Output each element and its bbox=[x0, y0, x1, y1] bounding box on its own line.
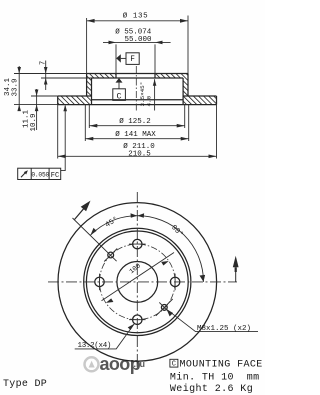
svg-text:Ø 141 MAX: Ø 141 MAX bbox=[115, 130, 156, 139]
svg-text:7: 7 bbox=[40, 61, 48, 65]
dim text 34.1 33.9 bbox=[4, 77, 19, 96]
ext ring top left bbox=[31, 95, 58, 97]
arrow dia211 left bbox=[58, 155, 66, 159]
svg-text:13.2(x4): 13.2(x4) bbox=[78, 342, 112, 350]
arrow 11.1 top bbox=[35, 90, 39, 97]
wall inner edge right bbox=[182, 78, 184, 105]
svg-text:0.050: 0.050 bbox=[31, 172, 49, 179]
dim line 7 bbox=[45, 61, 47, 91]
tick bolt hole E bbox=[174, 274, 176, 291]
svg-text:100: 100 bbox=[128, 262, 143, 276]
ring top right bbox=[183, 95, 216, 97]
tick M8 UL diag1 bbox=[104, 249, 117, 262]
bolt circle dash-dot bbox=[100, 244, 176, 320]
ext dia55 right bbox=[154, 44, 156, 73]
svg-text:M8x1.25 (x2): M8x1.25 (x2) bbox=[197, 325, 251, 333]
M8 hole LR bbox=[161, 305, 167, 311]
centerline section bbox=[135, 66, 137, 112]
arrowhead arc90 top end bbox=[137, 213, 144, 217]
bore circle bbox=[117, 262, 158, 303]
watermark bbox=[85, 354, 146, 374]
arrowhead 13.2 leader bbox=[128, 324, 135, 330]
wall inner edge left bbox=[91, 78, 93, 105]
ext dia211 left bbox=[57, 105, 59, 159]
svg-text:90°: 90° bbox=[169, 223, 185, 239]
dim line 11.1 bbox=[36, 89, 38, 130]
dim line dia125 bbox=[89, 125, 184, 127]
hatch ring left bbox=[58, 96, 92, 105]
bore edge right bbox=[154, 74, 156, 79]
ring top left bbox=[58, 95, 92, 97]
arrow dia55 right bbox=[155, 41, 163, 45]
ext dia141 right bbox=[188, 105, 190, 141]
chamfer text 4.0 3.5 x45 bbox=[139, 82, 153, 107]
hatch wall left bbox=[87, 78, 92, 96]
runout symbol bbox=[21, 171, 27, 177]
datum C box bbox=[113, 83, 126, 102]
datum C triangle bbox=[116, 78, 123, 83]
svg-text:210.5: 210.5 bbox=[128, 151, 151, 159]
dim line 34.1 bbox=[18, 66, 20, 111]
arrow dia135 left bbox=[87, 19, 95, 23]
svg-text:4.0: 4.0 bbox=[145, 95, 152, 106]
arc 90deg bbox=[137, 216, 203, 282]
ring left end bbox=[57, 96, 59, 105]
dim line dia141 bbox=[85, 138, 188, 140]
hat top edge bbox=[87, 73, 188, 75]
ext dia125 left bbox=[88, 105, 90, 128]
M8 hole UL bbox=[108, 252, 114, 258]
arrowhead M8 leader bbox=[167, 309, 174, 316]
arrow 7 bottom bbox=[44, 78, 48, 85]
tick bolt hole N bbox=[129, 243, 146, 245]
centerline horizontal bbox=[48, 281, 237, 283]
arrow dia125 left bbox=[89, 124, 97, 128]
arrowhead arc45 top end bbox=[131, 213, 138, 217]
dim text 11.1 10.9 bbox=[23, 109, 38, 131]
arrow 34.1 bottom bbox=[17, 105, 21, 112]
tick M8 LR diag1 bbox=[156, 299, 173, 316]
rotation arrow NE shaft bbox=[75, 208, 85, 219]
arrow 7 top bbox=[44, 67, 48, 74]
radial M8 UL bbox=[73, 218, 117, 261]
arrow chamfer up bbox=[153, 79, 157, 86]
arrowhead arc90 right end bbox=[200, 275, 206, 282]
leader M8 label bbox=[167, 309, 258, 331]
outer circle bbox=[58, 203, 217, 362]
hatch plate right bbox=[155, 74, 188, 79]
bolt hole N bbox=[133, 239, 142, 248]
dim line dia135 bbox=[87, 20, 188, 22]
svg-text:33.9: 33.9 bbox=[11, 78, 19, 96]
svg-text:Min. TH 10 mm: Min. TH 10 mm bbox=[170, 371, 260, 383]
svg-text:10.9: 10.9 bbox=[30, 113, 38, 131]
ext hat top to left margin bbox=[14, 73, 87, 75]
wall outer edge right bbox=[187, 74, 189, 97]
pocket floor bbox=[92, 99, 184, 101]
datum F box bbox=[121, 53, 139, 65]
leader 13.2 bbox=[75, 324, 135, 349]
ring bottom bbox=[58, 104, 217, 106]
ext dia211 right bbox=[216, 105, 218, 159]
svg-text:C: C bbox=[117, 92, 122, 102]
arrowhead dia100 NE bbox=[161, 261, 169, 266]
rotation arrow E (thick up) bbox=[233, 256, 239, 267]
ext dia141 left bbox=[84, 105, 86, 141]
svg-text:F: F bbox=[130, 56, 135, 64]
arrow 34.1 top bbox=[17, 67, 21, 74]
ring right end bbox=[216, 96, 218, 105]
ext dia135 right bbox=[187, 16, 189, 74]
dim line 100 diagonal bbox=[102, 253, 175, 301]
svg-text:Weight 2.6 Kg: Weight 2.6 Kg bbox=[170, 383, 253, 395]
svg-text:55.000: 55.000 bbox=[124, 36, 152, 44]
svg-text:MOUNTING FACE: MOUNTING FACE bbox=[180, 359, 263, 370]
leader chamfer bbox=[154, 79, 156, 110]
arrow dia141 left bbox=[85, 137, 93, 141]
arrow dia211 right bbox=[209, 155, 217, 159]
svg-text:Ø 135: Ø 135 bbox=[123, 12, 149, 21]
bolt hole W bbox=[95, 277, 104, 286]
tick M8 LR diag2 bbox=[159, 302, 169, 312]
svg-text:C: C bbox=[172, 361, 176, 369]
arrowhead dia100 SW bbox=[106, 298, 114, 303]
arrow dia125 right bbox=[177, 124, 185, 128]
wall outer edge left bbox=[86, 74, 88, 97]
hatch plate left bbox=[87, 74, 116, 79]
arrow 11.1 bottom bbox=[35, 105, 39, 112]
arc 45deg bbox=[91, 216, 138, 235]
dim line dia55 bbox=[103, 41, 171, 43]
hat bottom edge bbox=[92, 77, 184, 79]
arrow dia55 left bbox=[109, 41, 117, 45]
hat circle bbox=[86, 231, 188, 333]
rotation arrow NE (thick) bbox=[81, 201, 91, 212]
svg-text:Type DP: Type DP bbox=[3, 379, 47, 390]
wear circle bbox=[84, 228, 191, 335]
arrow dia135 right bbox=[180, 19, 188, 23]
rotation arrow E stem bbox=[235, 267, 237, 272]
arrow FC leader up bbox=[63, 105, 67, 112]
ext dia55 left bbox=[115, 44, 117, 73]
ext dia135 left bbox=[86, 18, 88, 74]
bolt hole E bbox=[170, 277, 179, 286]
arrowhead arc45 left end bbox=[91, 228, 97, 235]
bore edge left bbox=[115, 74, 117, 79]
svg-text:FC: FC bbox=[51, 172, 59, 180]
dim line dia211 bbox=[58, 155, 217, 157]
arrow dia141 right bbox=[181, 137, 189, 141]
hatch wall right bbox=[183, 78, 188, 96]
svg-text:Ø 125.2: Ø 125.2 bbox=[119, 117, 151, 126]
FC feature control frame bbox=[18, 168, 61, 180]
leader FC frame bbox=[61, 106, 65, 171]
tick bolt hole S bbox=[129, 319, 146, 321]
centerline vertical bbox=[136, 192, 138, 364]
svg-text:45°: 45° bbox=[104, 215, 120, 230]
bolt hole S bbox=[133, 315, 142, 324]
hatch ring right bbox=[183, 96, 216, 105]
datum F triangle bbox=[116, 54, 121, 62]
ext dia125 right bbox=[184, 105, 186, 128]
ext hat bottom for 7 dim bbox=[41, 77, 92, 79]
note mounting face bbox=[170, 359, 263, 370]
ext ring bottom left bbox=[14, 104, 58, 106]
tick bolt hole W bbox=[99, 274, 101, 291]
